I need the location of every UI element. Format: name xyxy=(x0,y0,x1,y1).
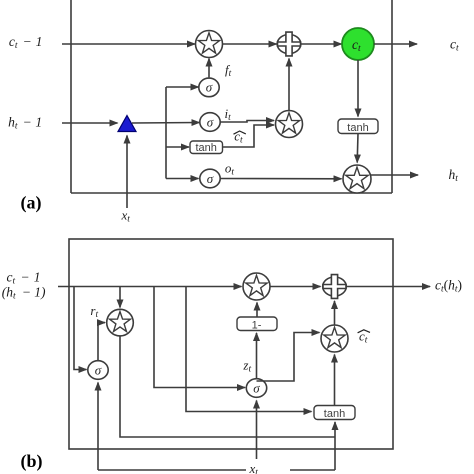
svg-text:tanh: tanh xyxy=(195,142,216,154)
svg-text:ct(ht): ct(ht) xyxy=(435,278,462,295)
svg-text:1: 1 xyxy=(34,269,41,284)
add node (plus) on c line xyxy=(277,32,301,56)
main wire into star (b) xyxy=(58,286,242,288)
svg-text:ht: ht xyxy=(8,115,18,132)
label c-hat_t xyxy=(234,128,246,145)
riser x_t to tanh bottom xyxy=(334,422,336,470)
wire bus to sigma f xyxy=(166,86,199,88)
sigma gate i xyxy=(200,113,220,132)
tanh box (b) xyxy=(314,406,355,420)
sigma gate z xyxy=(246,379,266,398)
sigma gate f xyxy=(199,78,219,97)
label h_t-1 input (a) xyxy=(8,115,42,132)
box (a) bottom edge xyxy=(71,192,392,194)
tanh box (candidate) xyxy=(190,141,223,154)
svg-text:xt: xt xyxy=(121,207,131,224)
wire sigma f up to star xyxy=(208,59,210,78)
drop wire to sigma z xyxy=(154,287,245,388)
wire sigma i to middle star xyxy=(220,121,274,123)
wire bus to tanh xyxy=(166,146,189,148)
x_t bottom wire right xyxy=(290,469,335,471)
svg-text:ht: ht xyxy=(449,167,459,184)
svg-text:1): 1) xyxy=(34,285,46,300)
wire x_t input (a) xyxy=(126,136,128,209)
1- box xyxy=(237,317,277,331)
wire plus to c_t cell xyxy=(301,43,342,45)
sigma gate o xyxy=(200,169,220,188)
svg-text:tanh: tanh xyxy=(324,408,345,420)
svg-text:ct: ct xyxy=(450,37,459,54)
wire h_t-1 into join triangle xyxy=(62,122,118,124)
r multiply star xyxy=(107,309,134,336)
svg-text:1: 1 xyxy=(36,34,43,49)
riser x_t to sigma z bottom xyxy=(256,401,258,460)
svg-text:rt: rt xyxy=(90,303,98,320)
wire c_t down to tanh xyxy=(357,60,359,117)
wire r star down and right to tanh riser xyxy=(120,336,335,437)
label c-hat_t (b) xyxy=(358,329,370,346)
wire sigma o to output star xyxy=(220,178,342,180)
svg-text:(ht: (ht xyxy=(2,285,16,302)
wire h_t output xyxy=(371,174,419,176)
wire 1- box up to star (b) xyxy=(256,303,258,318)
wire c_t-1 into forget-gate multiply xyxy=(62,43,195,45)
wire middle star up to plus xyxy=(288,59,290,111)
svg-text:ft: ft xyxy=(225,62,232,79)
drop wire to sigma r xyxy=(74,287,87,370)
wire tanh up to c-hat star xyxy=(334,355,336,406)
wire triangle to sigma i xyxy=(132,122,200,125)
wire tanh to middle star xyxy=(223,125,275,147)
svg-text:−: − xyxy=(23,115,32,130)
svg-text:tanh: tanh xyxy=(347,122,368,134)
main multiply star (b) xyxy=(243,273,270,300)
box (a) right edge xyxy=(391,0,393,193)
svg-text:−: − xyxy=(23,34,32,49)
svg-text:zt: zt xyxy=(242,358,251,375)
wire c-hat star up to plus (b) xyxy=(334,301,336,325)
label c_t-1 (b) xyxy=(7,269,41,286)
box (a) left edge xyxy=(70,0,72,193)
sigma gate r xyxy=(88,361,108,380)
wire main line down into r star xyxy=(119,287,121,308)
riser x_t to sigma r bottom xyxy=(97,383,99,471)
wire z branch to c-hat star xyxy=(257,333,320,382)
cell state c_t (green circle) xyxy=(342,28,374,60)
label (h_t-1) (b) xyxy=(2,285,46,302)
svg-text:(b): (b) xyxy=(21,451,43,472)
middle multiply star xyxy=(276,111,303,138)
svg-text:−: − xyxy=(22,285,31,300)
box (b) xyxy=(69,239,393,449)
svg-text:it: it xyxy=(225,106,232,123)
add node (b) xyxy=(323,275,347,299)
multiply node (star) on c line xyxy=(196,31,223,58)
svg-text:−: − xyxy=(21,269,30,284)
join triangle (blue) xyxy=(118,116,136,132)
wire output c_t(h_t) xyxy=(347,286,430,288)
wire bus to sigma o xyxy=(166,178,199,180)
wire sigma z up to 1- box xyxy=(256,333,258,378)
svg-text:(a): (a) xyxy=(21,193,42,214)
svg-text:ot: ot xyxy=(225,161,235,178)
tanh box right xyxy=(338,119,378,134)
wire tanh down to output star xyxy=(356,134,359,163)
x_t bottom wire left xyxy=(98,469,246,471)
wire c_t output xyxy=(374,43,417,45)
label c_t-1 input (a) xyxy=(9,34,42,51)
wire star to plus (b) xyxy=(270,286,321,288)
svg-text:xt: xt xyxy=(249,461,259,474)
svg-text:1-: 1- xyxy=(252,319,262,331)
svg-text:1: 1 xyxy=(35,115,42,130)
c-hat multiply star xyxy=(321,325,348,352)
wire star to plus xyxy=(223,43,277,45)
svg-text:ct: ct xyxy=(9,34,18,51)
bus vertical xyxy=(165,87,167,179)
wire sigma r up into r star xyxy=(98,323,105,360)
output multiply star h xyxy=(343,165,371,193)
drop wire to tanh left xyxy=(186,287,312,412)
